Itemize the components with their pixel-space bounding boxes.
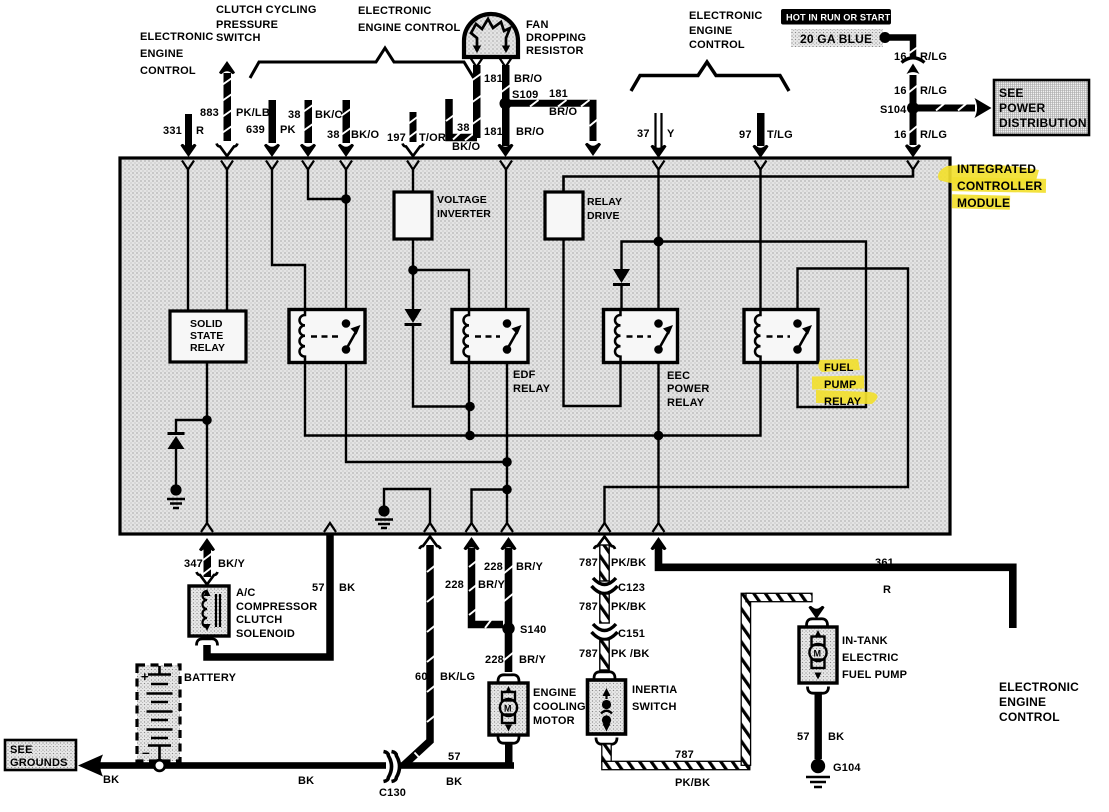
- label BATTERY: [184, 672, 237, 684]
- label 57 BK (fuel pump): [797, 731, 844, 743]
- svg-text:COOLING: COOLING: [533, 701, 586, 713]
- label 16 R/LG (third): [894, 129, 947, 141]
- svg-text:BR/O: BR/O: [549, 106, 578, 118]
- svg-text:SWITCH: SWITCH: [216, 32, 261, 44]
- svg-text:16: 16: [894, 129, 907, 141]
- svg-text:BK: BK: [298, 775, 314, 787]
- svg-text:BK/LG: BK/LG: [440, 671, 475, 683]
- label ENGINE COOLING MOTOR: [533, 687, 586, 727]
- svg-text:BK: BK: [103, 774, 119, 786]
- svg-text:PK/BK: PK/BK: [611, 557, 646, 569]
- svg-text:RELAY: RELAY: [824, 396, 862, 408]
- internal wire: junction to clamp diode: [176, 420, 207, 434]
- relay K1 (A/C wot relay): [289, 310, 365, 363]
- text: INTEGRATED CONTROLLER MODULE: [957, 162, 1042, 210]
- label INERTIA SWITCH: [632, 684, 677, 713]
- main ground wire BK with arrow to see grounds: [78, 755, 514, 777]
- label 60 BK/LG: [415, 671, 475, 683]
- svg-text:EEC: EEC: [667, 370, 690, 382]
- svg-text:787: 787: [579, 557, 598, 569]
- svg-text:883: 883: [200, 107, 219, 119]
- svg-text:347: 347: [184, 558, 203, 570]
- svg-text:DRIVE: DRIVE: [587, 210, 620, 222]
- internal wire: terminal 197 to voltage inverter: [412, 170, 414, 193]
- svg-text:SOLID: SOLID: [190, 318, 223, 330]
- svg-text:PUMP: PUMP: [824, 379, 857, 391]
- wire 787 PK/BK stripe from module to C123: [594, 537, 615, 582]
- internal wire: terminal 181 to EDF switch: [505, 170, 507, 323]
- splice S104: [880, 102, 919, 116]
- terminal forks on module top edge: [182, 161, 919, 170]
- svg-text:A/C: A/C: [236, 587, 256, 599]
- SEE GROUNDS box: [5, 740, 76, 770]
- internal wire: SSR output to bottom terminal with junction: [202, 362, 212, 524]
- internal wire: EEC coil bottom to relay drive: [564, 239, 621, 406]
- wire 787 PK/BK stripe from inertia switch to fuel pump: [602, 593, 825, 769]
- svg-text:331: 331: [163, 125, 182, 137]
- label FUEL PUMP RELAY: [824, 362, 862, 408]
- svg-text:S104: S104: [880, 104, 907, 116]
- svg-text:R/LG: R/LG: [920, 129, 947, 141]
- svg-text:181: 181: [484, 73, 503, 85]
- wire 347 BK/Y (hatched, arrows both ends): [197, 538, 218, 585]
- inertia switch: [588, 680, 626, 744]
- internal wire: relay1 coil bottom to bus: [305, 362, 470, 436]
- svg-text:BATTERY: BATTERY: [184, 672, 237, 684]
- in-tank electric fuel pump: [799, 619, 837, 693]
- svg-text:INERTIA: INERTIA: [632, 684, 677, 696]
- internal wire: branch to BR/Y terminal: [472, 490, 508, 525]
- wire 60 BK/LG (hatched): [404, 537, 441, 766]
- internal wire: EEC switch bottom to 361 terminal: [657, 362, 659, 524]
- solid state relay box: [170, 311, 246, 362]
- label 181 BR/O (loop): [549, 88, 578, 118]
- svg-text:S140: S140: [520, 624, 547, 636]
- label 57 BK (cooling motor): [446, 751, 462, 788]
- A/C compressor clutch solenoid: [189, 586, 229, 636]
- svg-text:FAN: FAN: [526, 19, 549, 31]
- svg-text:BK: BK: [828, 731, 844, 743]
- svg-text:RELAY: RELAY: [667, 397, 705, 409]
- svg-text:Y: Y: [667, 128, 675, 140]
- label IN-TANK ELECTRIC FUEL PUMP: [842, 635, 907, 681]
- brace: clutch cycling pressure switch span: [250, 48, 475, 80]
- wire 16 R/LG from S104 down into module: [905, 112, 921, 158]
- svg-text:PK /BK: PK /BK: [611, 648, 649, 660]
- svg-text:PK/LB: PK/LB: [236, 107, 270, 119]
- svg-text:DROPPING: DROPPING: [526, 32, 586, 44]
- svg-text:ENGINE CONTROL: ENGINE CONTROL: [358, 22, 460, 34]
- label 97 T/LG: [739, 129, 793, 141]
- ground G104: [806, 759, 861, 787]
- wire 16 R/LG connector to S104: [908, 75, 918, 105]
- svg-text:ELECTRONIC: ELECTRONIC: [140, 31, 214, 43]
- svg-text:R: R: [883, 584, 891, 596]
- wire 197 T/OR (hatched, open arrow bottom): [403, 112, 424, 156]
- wire 181 BR/O resistor left leg (hatched) down to J-hook: [471, 65, 482, 138]
- svg-text:GROUNDS: GROUNDS: [10, 757, 68, 769]
- connector C123: [592, 578, 646, 594]
- svg-text:639: 639: [246, 124, 265, 136]
- svg-text:RELAY: RELAY: [587, 196, 622, 208]
- diode CR (below voltage inverter): [405, 309, 422, 326]
- wire 97 T/LG: [753, 113, 769, 158]
- fan dropping resistor: [464, 14, 518, 57]
- internal wire: junction right to fuel pump relay switch lower loop: [659, 242, 867, 408]
- svg-text:BR/O: BR/O: [516, 126, 545, 138]
- svg-text:CONTROL: CONTROL: [140, 65, 196, 77]
- wire 228 BR/Y right (hatched, to S140): [501, 537, 517, 624]
- svg-text:R/LG: R/LG: [920, 85, 947, 97]
- label 228 BR/Y (below S140): [485, 654, 547, 666]
- svg-text:CONTROL: CONTROL: [689, 39, 745, 51]
- label 639 PK: [246, 124, 296, 136]
- ground (inside module, left): [167, 449, 185, 508]
- label 38 BK/O: [288, 109, 344, 121]
- svg-text:181↑: 181↑: [484, 126, 509, 138]
- HOT IN RUN OR START box: [781, 9, 891, 25]
- svg-text:60: 60: [415, 671, 428, 683]
- svg-text:+: +: [141, 669, 149, 684]
- label A/C COMPRESSOR CLUTCH SOLENOID: [236, 587, 317, 640]
- diode CR2 (above EEC power relay coil): [613, 269, 630, 286]
- internal wire: ignition bus terminal 16R/LG to relay drive: [564, 170, 914, 193]
- svg-text:ELECTRIC: ELECTRIC: [842, 652, 899, 664]
- svg-text:DISTRIBUTION: DISTRIBUTION: [999, 116, 1087, 130]
- svg-text:S109: S109: [512, 89, 539, 101]
- splice S140: [502, 622, 546, 636]
- svg-text:228: 228: [484, 561, 503, 573]
- label BK (center): [298, 775, 314, 787]
- label 181 BR/O (S109 down): [484, 126, 545, 138]
- wire 883 PK/LB (hatched, arrow up top, open arrow bottom): [217, 61, 238, 156]
- label 197 T/OR: [387, 132, 446, 144]
- wire 181 BR/O from S109 down into module: [498, 106, 514, 157]
- svg-text:CONTROLLER: CONTROLLER: [957, 179, 1042, 193]
- label EEC POWER RELAY: [667, 370, 710, 409]
- svg-text:57: 57: [448, 751, 461, 763]
- svg-text:R: R: [196, 125, 204, 137]
- internal wire: diode to EDF coil bottom junction: [413, 326, 475, 411]
- engine cooling motor: [489, 675, 528, 743]
- svg-text:BK: BK: [446, 776, 462, 788]
- internal wire: terminal 37 down to EEC switch with junction: [654, 170, 664, 323]
- svg-text:BR/Y: BR/Y: [516, 561, 544, 573]
- text: ELECTRONIC ENGINE CONTROL (bottom right): [999, 680, 1079, 724]
- internal wire: terminal to solid state relay pin 2: [226, 170, 228, 312]
- svg-text:T/LG: T/LG: [767, 129, 793, 141]
- wire 38 BK/O first (hatched): [300, 100, 316, 157]
- inline connector on 16 R/LG: [902, 58, 925, 74]
- label 57 BK: [312, 582, 355, 594]
- internal wire: terminal 639 to relay1 coil (jog): [272, 170, 305, 312]
- integrated controller module box: [120, 158, 950, 534]
- svg-text:C130: C130: [379, 787, 406, 799]
- connector C130: [379, 752, 406, 800]
- svg-text:IN-TANK: IN-TANK: [842, 635, 888, 647]
- svg-text:16: 16: [894, 51, 907, 63]
- svg-text:38: 38: [327, 129, 340, 141]
- svg-text:ELECTRONIC: ELECTRONIC: [689, 10, 763, 22]
- svg-text:FUEL PUMP: FUEL PUMP: [842, 669, 907, 681]
- label 787 PK/BK (fourth): [675, 749, 710, 789]
- internal wire: junction to EEC coil diode branch: [622, 242, 659, 270]
- svg-text:38: 38: [457, 122, 470, 134]
- svg-text:CONTROL: CONTROL: [999, 710, 1060, 724]
- svg-text:PRESSURE: PRESSURE: [216, 19, 278, 31]
- splice S109: [500, 89, 539, 110]
- internal ground loop (center): [375, 489, 430, 528]
- internal wire: terminal to solid state relay pin 1: [187, 170, 189, 312]
- label EDF RELAY: [513, 369, 551, 395]
- svg-text:POWER: POWER: [999, 101, 1045, 115]
- svg-text:COMPRESSOR: COMPRESSOR: [236, 601, 317, 613]
- wire 228 BR/Y left (hatched, to S140): [464, 537, 504, 628]
- internal wire: terminal 38 to junction on relay1 switch wire: [308, 170, 351, 204]
- svg-text:57: 57: [312, 582, 325, 594]
- text: ELECTRONIC ENGINE CONTROL (top center): [358, 5, 460, 34]
- highlight: integrated controller module label: [938, 165, 1046, 210]
- svg-text:ENGINE: ENGINE: [689, 25, 732, 37]
- wire 331 R with arrow into module: [181, 114, 197, 157]
- svg-text:BK: BK: [339, 582, 355, 594]
- internal wire: diode to EEC coil: [620, 286, 622, 311]
- label 787 PK/BK (second): [579, 601, 646, 613]
- wire cooling motor to ground wire: [505, 743, 513, 766]
- svg-text:MOTOR: MOTOR: [533, 715, 575, 727]
- label 37 Y: [637, 128, 675, 140]
- highlight: fuel pump relay label: [812, 359, 878, 404]
- relay K4 fuel pump relay: [744, 310, 818, 363]
- svg-text:RELAY: RELAY: [513, 383, 551, 395]
- svg-text:97: 97: [739, 129, 752, 141]
- label 181 BR/O (resistor right leg): [484, 73, 543, 85]
- battery: [137, 665, 180, 762]
- relay drive U: [545, 192, 622, 239]
- connector C151: [592, 624, 646, 640]
- wire A/C solenoid to 57 BK (thick L): [197, 534, 331, 657]
- svg-text:BK/O: BK/O: [452, 141, 481, 153]
- svg-text:SWITCH: SWITCH: [632, 701, 677, 713]
- relay K2 EDF relay: [452, 310, 528, 363]
- svg-text:BR/O: BR/O: [514, 73, 543, 85]
- svg-text:38: 38: [288, 109, 301, 121]
- svg-text:BR/Y: BR/Y: [478, 579, 506, 591]
- svg-text:PK: PK: [280, 124, 296, 136]
- svg-text:G104: G104: [833, 762, 861, 774]
- svg-text:MODULE: MODULE: [957, 196, 1010, 210]
- svg-text:VOLTAGE: VOLTAGE: [437, 194, 487, 206]
- label 38 BK/O (J-hook): [452, 122, 481, 153]
- svg-text:BR/Y: BR/Y: [519, 654, 547, 666]
- label 228 BR/Y (right): [484, 561, 544, 573]
- svg-text:787: 787: [579, 601, 598, 613]
- svg-text:M: M: [814, 649, 822, 659]
- label 228 BR/Y (left): [445, 579, 506, 591]
- label 347 BK/Y: [184, 558, 246, 570]
- svg-text:POWER: POWER: [667, 383, 710, 395]
- svg-text:FUEL: FUEL: [824, 362, 854, 374]
- internal wire: EDF coil bottom through junctions to bus: [465, 362, 475, 440]
- svg-text:STATE: STATE: [190, 330, 223, 342]
- wire 16 R/LG from 20 GA BLUE dot to S104: [885, 38, 919, 60]
- terminal fork under resistor right leg: [500, 58, 512, 67]
- svg-text:37: 37: [637, 128, 650, 140]
- svg-text:20 GA BLUE: 20 GA BLUE: [800, 32, 872, 46]
- text: ELECTRONIC ENGINE CONTROL (top right): [689, 10, 763, 51]
- internal wire: terminal 38b to relay1 switch: [345, 170, 347, 323]
- svg-text:361: 361: [875, 557, 894, 569]
- svg-text:BK/Y: BK/Y: [218, 558, 246, 570]
- internal wire: coil bus to fuel pump relay coil: [470, 362, 761, 440]
- diode CR3 (SSR clamp, pointing up): [168, 432, 185, 449]
- label BK (left): [103, 774, 119, 786]
- svg-text:C123: C123: [618, 582, 645, 594]
- svg-text:RESISTOR: RESISTOR: [526, 45, 584, 57]
- svg-text:16: 16: [894, 85, 907, 97]
- svg-text:RELAY: RELAY: [190, 342, 225, 354]
- svg-text:CLUTCH CYCLING: CLUTCH CYCLING: [216, 4, 317, 16]
- svg-text:INVERTER: INVERTER: [437, 208, 491, 220]
- wire 181 BR/O resistor right leg down to S109: [500, 65, 511, 104]
- wire 228 BR/Y S140 to cooling motor: [503, 632, 514, 672]
- svg-text:197: 197: [387, 132, 406, 144]
- wire 787 PK/BK stripe C123 to C151: [600, 594, 609, 623]
- svg-text:PK/BK: PK/BK: [675, 777, 710, 789]
- wire 38 BK/O J-hook near resistor: [446, 99, 477, 141]
- svg-text:CLUTCH: CLUTCH: [236, 614, 282, 626]
- svg-text:BK/O: BK/O: [315, 109, 344, 121]
- label 787 PK/BK (third): [579, 648, 649, 660]
- svg-text:228: 228: [445, 579, 464, 591]
- svg-text:SEE: SEE: [999, 86, 1024, 100]
- svg-text:C151: C151: [618, 628, 645, 640]
- svg-text:SOLENOID: SOLENOID: [236, 628, 295, 640]
- svg-text:PK/BK: PK/BK: [611, 601, 646, 613]
- svg-text:ELECTRONIC: ELECTRONIC: [999, 680, 1079, 694]
- relay K3 EEC power relay: [604, 310, 678, 363]
- internal wire: terminal 97 to fuel pump relay coil: [759, 170, 761, 312]
- label 361 R: [875, 557, 894, 596]
- internal wire: EDF switch bottom to terminals: [502, 362, 512, 524]
- svg-text:ENGINE: ENGINE: [533, 687, 576, 699]
- svg-text:BK/O: BK/O: [351, 129, 380, 141]
- svg-text:57: 57: [797, 731, 810, 743]
- text: CLUTCH CYCLING PRESSURE SWITCH: [216, 4, 317, 44]
- terminal fork under resistor left leg: [471, 58, 483, 67]
- label 883 PK/LB: [200, 107, 270, 119]
- text: FAN DROPPING RESISTOR: [526, 19, 586, 57]
- wire 38 BK/O second (hatched): [338, 100, 354, 157]
- brace: electronic engine control span (right): [631, 62, 789, 91]
- internal wire: voltage inverter output with junction: [408, 239, 469, 311]
- internal wire: fuel pump relay switch top loop to PK/BK terminal: [605, 269, 909, 525]
- svg-text:ELECTRONIC: ELECTRONIC: [358, 5, 432, 17]
- label 331 R: [163, 125, 204, 137]
- svg-text:ENGINE: ENGINE: [999, 695, 1046, 709]
- bottom terminal forks on module edge: [201, 523, 665, 532]
- svg-text:181: 181: [549, 88, 568, 100]
- SEE POWER DISTRIBUTION box: [994, 80, 1089, 135]
- text: ELECTRONIC ENGINE CONTROL (top far left): [140, 31, 214, 77]
- label 16 R/LG (first): [894, 51, 947, 63]
- svg-text:HOT IN RUN OR START: HOT IN RUN OR START: [786, 12, 891, 22]
- svg-text:SEE: SEE: [10, 744, 33, 756]
- internal wire: relay1 switch bottom to EDF switch wire: [346, 362, 507, 462]
- wire 361 R from module to right: [651, 537, 1013, 628]
- svg-text:T/OR: T/OR: [419, 132, 446, 144]
- 20 GA BLUE label: [791, 29, 891, 47]
- svg-text:ENGINE: ENGINE: [140, 48, 183, 60]
- svg-text:228: 228: [485, 654, 504, 666]
- svg-text:787: 787: [675, 749, 694, 761]
- wire 37 Y (double line): [651, 113, 667, 158]
- wire S104 to see power distribution (arrow right): [918, 98, 992, 118]
- label 787 PK/BK (first): [579, 557, 646, 569]
- label 16 R/LG (second): [894, 85, 947, 97]
- label 38 BK/O: [327, 129, 380, 141]
- svg-text:R/LG: R/LG: [920, 51, 947, 63]
- wire 639 PK: [264, 100, 280, 157]
- voltage inverter U: [394, 192, 491, 239]
- wire 181 BR/O loop from S109 right and down: [509, 100, 601, 156]
- svg-text:787: 787: [579, 648, 598, 660]
- wire 57 BK fuel pump to G104: [815, 692, 822, 759]
- wire 787 PK/BK stripe C151 to inertia switch: [594, 640, 615, 679]
- svg-text:M: M: [504, 704, 512, 714]
- svg-text:INTEGRATED: INTEGRATED: [957, 162, 1036, 176]
- battery terminal connector circle: [154, 760, 165, 771]
- svg-text:EDF: EDF: [513, 369, 536, 381]
